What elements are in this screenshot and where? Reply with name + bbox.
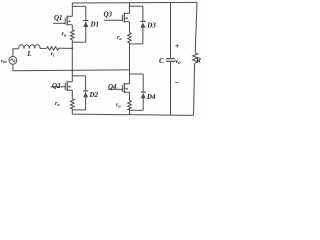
diode D2 — [83, 91, 88, 97]
wire ra2 to bottom rail — [71, 109, 73, 114]
MOSFET Q4 — [108, 83, 130, 93]
svg-text:L: L — [26, 50, 31, 58]
wire source bottom lead — [13, 64, 130, 71]
wire D4 branch lower — [142, 98, 144, 110]
MOSFET Q2 — [51, 81, 73, 91]
svg-text:R: R — [195, 56, 201, 65]
wire leg1 mid to Q2 — [71, 48, 73, 81]
wire leg1 drain segment — [71, 3, 73, 16]
wire D2 bottom connector — [72, 109, 85, 111]
MOSFET Q1 — [53, 16, 72, 26]
svg-text:Q3: Q3 — [104, 11, 113, 19]
wire right border bottom (R branch lower) — [194, 63, 195, 115]
wire source top lead — [13, 49, 19, 57]
diode D4 — [141, 92, 146, 98]
svg-text:ra: ra — [116, 103, 121, 109]
wire leg2 drain segment — [129, 2, 131, 13]
MOSFET Q3 — [104, 13, 130, 23]
wire L to ri — [40, 47, 46, 49]
diode D1 — [83, 21, 88, 27]
voltage source Vin — [9, 56, 17, 64]
resistor ri — [47, 47, 59, 50]
svg-text:ra: ra — [55, 101, 60, 107]
resistor ra1 — [71, 30, 75, 40]
wire Q4 source to ra4 — [129, 92, 131, 100]
wire D4 bottom connector — [130, 109, 144, 111]
diode D3 — [140, 21, 145, 27]
wire right border top (R branch upper) — [195, 2, 197, 52]
wire C branch lower — [170, 61, 172, 115]
resistor ra4 — [128, 101, 132, 110]
wire D2 top connector — [72, 75, 85, 77]
wire D1 branch upper — [85, 6, 87, 20]
wire D3 branch upper — [142, 6, 144, 21]
resistor ra2 — [71, 99, 75, 109]
svg-text:+: + — [175, 42, 180, 51]
svg-text:Q4: Q4 — [108, 83, 117, 91]
svg-text:ra: ra — [62, 31, 67, 37]
wire D1 top connector — [72, 5, 86, 7]
capacitor C — [166, 59, 175, 62]
wire C branch upper — [170, 2, 172, 58]
resistor R — [193, 53, 198, 63]
wire D1 branch lower — [85, 27, 87, 42]
node leg1 mid wire crossing — [71, 69, 73, 71]
svg-text:vin: vin — [1, 58, 8, 64]
svg-text:ra: ra — [117, 35, 122, 41]
wire top rail — [72, 1, 197, 4]
wire ra3 to mid node — [129, 43, 131, 70]
node leg1 input junction — [71, 47, 73, 49]
svg-text:D1: D1 — [90, 21, 100, 29]
resistor ra3 — [128, 33, 132, 43]
svg-text:Q2: Q2 — [52, 82, 61, 90]
wire Q3 source to ra3 — [129, 22, 131, 33]
wire D4 top connector — [130, 73, 144, 75]
wire D1 bottom connector — [72, 41, 86, 43]
wire D2 branch upper — [85, 76, 87, 91]
svg-text:D2: D2 — [89, 91, 99, 99]
wire D3 branch lower — [142, 28, 144, 44]
wire Q2 source to ra2 — [71, 90, 73, 99]
wire bottom rail — [72, 114, 193, 115]
inductor L — [19, 45, 41, 49]
wire D2 branch lower — [85, 97, 87, 110]
wire D4 branch upper — [142, 74, 144, 92]
svg-text:D4: D4 — [146, 93, 156, 101]
svg-text:D3: D3 — [146, 21, 156, 29]
svg-text:Q1: Q1 — [54, 14, 63, 22]
svg-text:−: − — [175, 78, 180, 87]
wire leg2 mid to Q4 — [129, 70, 131, 84]
wire ra1 to mid node — [71, 40, 73, 49]
wire D3 bottom connector — [130, 43, 143, 45]
wire Q1 source to ra1 — [71, 25, 73, 30]
wire ri to leg1 mid node — [59, 47, 72, 49]
wire D3 top connector — [130, 5, 143, 7]
wire ra4 to bottom rail — [129, 108, 131, 115]
